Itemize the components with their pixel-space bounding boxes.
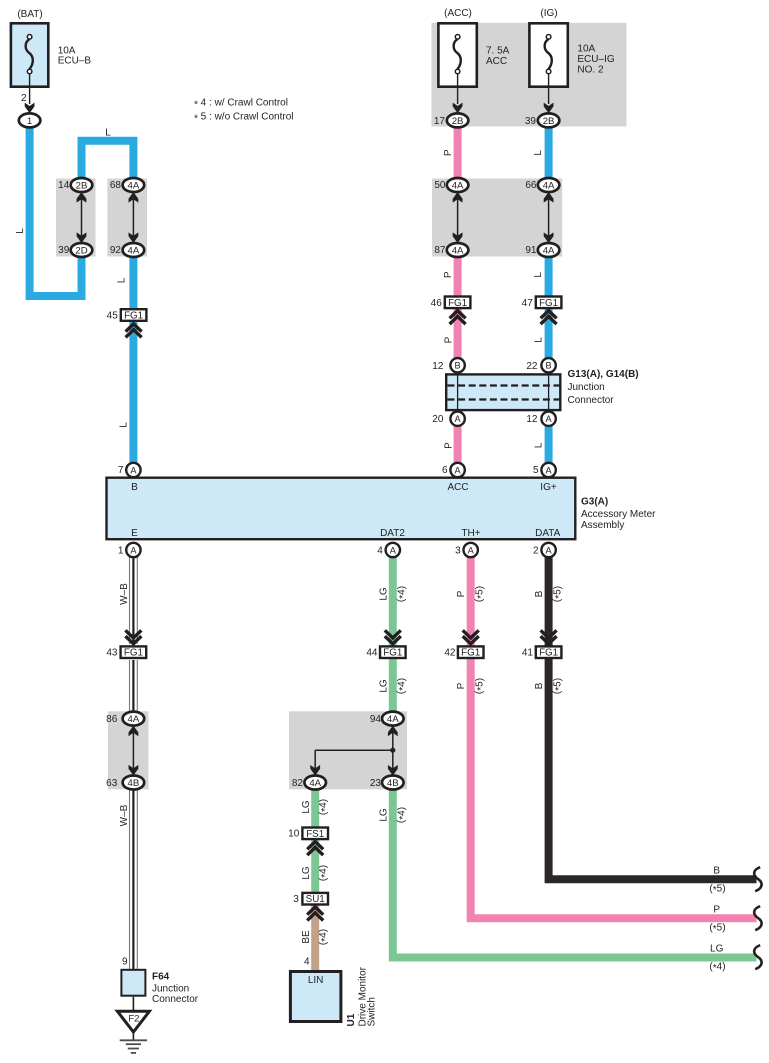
svg-text:* 4 : w/ Crawl Control: * 4 : w/ Crawl Control	[194, 98, 288, 111]
svg-text:Switch: Switch	[366, 997, 377, 1026]
svg-text:2D: 2D	[75, 245, 87, 256]
svg-text:2B: 2B	[543, 116, 555, 127]
svg-text:ECU–B: ECU–B	[58, 56, 92, 67]
svg-text:7: 7	[118, 465, 124, 476]
svg-text:(*4): (*4)	[709, 961, 725, 974]
connector 42 FG1	[463, 630, 479, 644]
svg-text:92: 92	[110, 245, 122, 256]
svg-text:(*4): (*4)	[318, 929, 331, 945]
connector 43 FG1	[125, 630, 141, 644]
svg-text:4A: 4A	[543, 180, 555, 191]
svg-text:LG: LG	[378, 587, 389, 601]
svg-text:14: 14	[58, 180, 70, 191]
svg-text:5: 5	[533, 465, 539, 476]
svg-text:G3(A): G3(A)	[581, 497, 608, 508]
svg-text:4A: 4A	[128, 714, 140, 725]
wire LG from meter pin 4 DAT2 to FG1 44	[389, 556, 397, 646]
edge break mark B wire	[754, 867, 761, 891]
ground symbol	[132, 1032, 134, 1040]
svg-text:2: 2	[533, 546, 539, 557]
svg-text:20: 20	[432, 414, 444, 425]
svg-text:LG: LG	[301, 800, 312, 814]
svg-text:L: L	[533, 337, 544, 343]
svg-text:6: 6	[442, 465, 448, 476]
wire L from 91 4A to FG1 47	[545, 255, 553, 297]
svg-text:B: B	[534, 590, 545, 597]
svg-text:(*4): (*4)	[396, 807, 409, 823]
svg-text:F64: F64	[152, 972, 170, 983]
svg-text:22: 22	[526, 361, 538, 372]
svg-text:(ACC): (ACC)	[444, 8, 472, 19]
svg-text:1: 1	[27, 116, 32, 127]
svg-text:4B: 4B	[387, 778, 399, 789]
svg-text:FG1: FG1	[539, 298, 558, 309]
ground triangle F2	[117, 1011, 149, 1032]
connector pair 66 4A / 91 4A	[548, 193, 550, 242]
svg-text:4: 4	[377, 546, 383, 557]
connector pair 68 4A / 92 4A	[132, 193, 134, 242]
svg-text:23: 23	[370, 778, 382, 789]
svg-text:ACC: ACC	[486, 56, 507, 67]
svg-text:B: B	[131, 482, 138, 493]
svg-text:A: A	[546, 414, 553, 424]
svg-text:(*5): (*5)	[709, 922, 725, 935]
svg-text:P: P	[443, 442, 454, 449]
svg-text:1: 1	[118, 546, 124, 557]
svg-text:17: 17	[434, 116, 446, 127]
svg-text:A: A	[390, 545, 397, 555]
svg-text:(*5): (*5)	[552, 678, 565, 694]
svg-text:(*5): (*5)	[474, 678, 487, 694]
connector 44 FG1	[385, 630, 401, 644]
svg-text:L: L	[118, 422, 129, 428]
gray shade box connector 94/82/23 group	[289, 711, 407, 789]
svg-text:Connector: Connector	[568, 395, 615, 406]
gray shade box connector 2B/2D pair	[56, 179, 96, 257]
svg-text:Assembly: Assembly	[581, 520, 624, 531]
wire from F64 to ground F2	[132, 997, 134, 1010]
svg-text:(*5): (*5)	[552, 586, 565, 602]
svg-text:ECU–IG: ECU–IG	[577, 54, 614, 65]
junction connector G13(A) G14(B)	[446, 374, 560, 410]
svg-text:4: 4	[304, 957, 310, 968]
svg-text:B: B	[546, 361, 552, 371]
svg-text:(*5): (*5)	[709, 883, 725, 896]
svg-text:(BAT): (BAT)	[17, 9, 42, 20]
svg-text:39: 39	[58, 245, 70, 256]
svg-text:42: 42	[444, 648, 456, 659]
svg-text:TH+: TH+	[461, 528, 480, 539]
wire L from 92 4A to FG1 45	[129, 255, 137, 309]
wire LG from FS1 to SU1	[311, 840, 319, 895]
svg-text:P: P	[456, 590, 467, 597]
svg-text:B: B	[713, 866, 720, 877]
svg-text:* 5 : w/o Crawl Control: * 5 : w/o Crawl Control	[194, 112, 294, 125]
wire LG from FG1 44 to 94 4A	[389, 659, 397, 715]
svg-text:L: L	[533, 442, 544, 448]
svg-text:9: 9	[122, 957, 128, 968]
svg-text:L: L	[105, 127, 111, 138]
svg-text:IG+: IG+	[540, 482, 557, 493]
svg-text:LG: LG	[378, 808, 389, 822]
svg-text:NO. 2: NO. 2	[577, 65, 604, 76]
gray shade box around ACC/IG fuses	[431, 23, 626, 127]
svg-text:P: P	[456, 682, 467, 689]
svg-text:A: A	[130, 465, 137, 475]
svg-text:FS1: FS1	[306, 829, 324, 840]
wire BE from SU1 to switch LIN pin 4	[311, 905, 319, 972]
svg-text:39: 39	[525, 116, 537, 127]
svg-text:4A: 4A	[128, 245, 140, 256]
wire L from FG1 47 to junction 22 B	[545, 309, 553, 361]
svg-text:3: 3	[293, 894, 299, 905]
svg-text:(*4): (*4)	[396, 586, 409, 602]
svg-text:(*4): (*4)	[396, 678, 409, 694]
svg-text:W–B: W–B	[119, 804, 130, 826]
svg-text:4A: 4A	[452, 180, 464, 191]
svg-text:L: L	[15, 228, 26, 234]
svg-text:2B: 2B	[76, 180, 88, 191]
gray shade box connector 86/63 pair	[108, 711, 149, 789]
connector 41 FG1	[541, 630, 557, 644]
drive monitor switch U1 box	[290, 972, 341, 1022]
svg-text:63: 63	[106, 778, 118, 789]
svg-text:12: 12	[432, 361, 444, 372]
connector pair 50 4A / 87 4A	[457, 193, 459, 242]
svg-text:FG1: FG1	[461, 648, 480, 659]
fuse pin arrow to 39 2B	[544, 103, 554, 114]
svg-text:B: B	[534, 682, 545, 689]
svg-text:4A: 4A	[452, 245, 464, 256]
svg-text:45: 45	[107, 311, 119, 322]
svg-text:47: 47	[522, 298, 534, 309]
svg-text:46: 46	[431, 298, 443, 309]
svg-text:82: 82	[292, 778, 304, 789]
svg-text:A: A	[455, 465, 462, 475]
svg-text:LG: LG	[378, 679, 389, 693]
svg-text:86: 86	[106, 714, 118, 725]
svg-text:FG1: FG1	[124, 648, 143, 659]
svg-text:(*5): (*5)	[474, 586, 487, 602]
svg-text:50: 50	[434, 180, 446, 191]
wire B from meter pin 2 DATA to FG1 41	[545, 556, 553, 646]
svg-text:4A: 4A	[309, 778, 321, 789]
connector 1	[19, 113, 41, 127]
svg-text:4A: 4A	[387, 714, 399, 725]
svg-text:3: 3	[455, 546, 461, 557]
svg-text:4A: 4A	[128, 180, 140, 191]
wire P from meter pin 3 TH+ to FG1 42	[467, 556, 475, 646]
svg-text:Connector: Connector	[152, 994, 199, 1005]
svg-text:U1: U1	[346, 1013, 357, 1026]
svg-text:A: A	[468, 545, 475, 555]
svg-text:W–B: W–B	[119, 583, 130, 605]
svg-text:44: 44	[366, 648, 378, 659]
wire LG from 82 4A to FS1	[311, 788, 319, 829]
wire L from junction 12 A to meter pin 5 IG+	[545, 425, 553, 466]
svg-text:F2: F2	[128, 1014, 139, 1025]
wire B from FG1 41 down and right to edge	[549, 659, 757, 880]
svg-text:SU1: SU1	[306, 894, 325, 905]
svg-text:LG: LG	[301, 866, 312, 880]
wire P from ACC fuse 2B to 50 4A	[454, 124, 462, 180]
wire L from IG fuse 2B to 66 4A	[545, 124, 553, 180]
svg-text:41: 41	[522, 648, 534, 659]
svg-text:10: 10	[288, 829, 300, 840]
gray shade box connector 68/92 4A pair	[107, 179, 147, 257]
wire W-B from meter pin 1 E to FG1 43	[130, 556, 138, 644]
svg-text:L: L	[533, 150, 544, 156]
svg-text:P: P	[443, 271, 454, 278]
wire P from junction 20 A to meter pin 6 ACC	[454, 425, 462, 466]
fuse pin arrow to 17 2B	[453, 103, 463, 114]
accessory meter assembly G3(A)	[107, 478, 576, 540]
svg-text:A: A	[455, 414, 462, 424]
svg-text:L: L	[533, 272, 544, 278]
wire L from 2B up/right/down to 68 4A	[82, 141, 134, 180]
svg-text:FG1: FG1	[448, 298, 467, 309]
svg-text:2: 2	[21, 93, 27, 104]
svg-text:FG1: FG1	[383, 648, 402, 659]
wire L (BAT) from connector 1 down/right/up to 2D	[30, 124, 82, 296]
connector pair 14 2B / 39 2D	[81, 193, 83, 242]
svg-text:10A: 10A	[577, 43, 595, 54]
connector pair 86 4A / 63 4B	[132, 727, 134, 775]
svg-text:DATA: DATA	[535, 528, 561, 539]
wire W-B from FG1 43 to 86 4A	[130, 660, 138, 714]
svg-text:(*4): (*4)	[318, 799, 331, 815]
svg-text:L: L	[116, 277, 127, 283]
svg-text:P: P	[443, 336, 454, 343]
svg-text:A: A	[130, 545, 137, 555]
svg-text:12: 12	[526, 414, 538, 425]
svg-text:ACC: ACC	[447, 482, 468, 493]
svg-text:Junction: Junction	[152, 984, 189, 995]
edge break mark LG wire	[754, 945, 761, 969]
svg-text:LG: LG	[710, 944, 724, 955]
svg-text:A: A	[546, 465, 553, 475]
svg-text:G13(A), G14(B): G13(A), G14(B)	[568, 369, 639, 380]
svg-text:4B: 4B	[128, 778, 140, 789]
svg-text:B: B	[455, 361, 461, 371]
svg-text:BE: BE	[301, 930, 312, 944]
svg-text:68: 68	[110, 180, 122, 191]
svg-text:FG1: FG1	[124, 311, 143, 322]
wire L from FG1 45 to meter pin 7 B	[129, 322, 137, 466]
wire P from FG1 42 down and right to edge	[471, 659, 757, 919]
svg-text:A: A	[546, 545, 553, 555]
gray shade box connector 50-87/66-91 4A pairs	[432, 179, 562, 257]
wire P from 87 4A to FG1 46	[454, 255, 462, 297]
svg-text:(*4): (*4)	[318, 865, 331, 881]
svg-text:DAT2: DAT2	[380, 528, 405, 539]
edge break mark P wire	[754, 906, 761, 930]
wire P from FG1 46 to junction 12 B	[454, 309, 462, 361]
svg-text:P: P	[713, 905, 720, 916]
svg-text:91: 91	[525, 245, 537, 256]
svg-text:E: E	[131, 528, 138, 539]
svg-text:P: P	[443, 149, 454, 156]
svg-text:2B: 2B	[452, 116, 464, 127]
wire LG from 23 4B down and right to edge	[393, 788, 757, 958]
svg-text:43: 43	[106, 648, 118, 659]
svg-text:66: 66	[525, 180, 537, 191]
svg-text:LIN: LIN	[308, 975, 324, 986]
svg-text:(IG): (IG)	[540, 8, 557, 19]
svg-text:94: 94	[370, 714, 382, 725]
junction dot	[390, 748, 395, 753]
connector group 94 4A to 82 4A / 23 4B	[315, 726, 393, 776]
svg-text:Junction: Junction	[568, 382, 605, 393]
wire W-B from 63 4B to junction connector F64	[130, 788, 138, 970]
svg-text:Accessory Meter: Accessory Meter	[581, 509, 656, 520]
svg-text:4A: 4A	[543, 245, 555, 256]
svg-text:FG1: FG1	[539, 648, 558, 659]
svg-text:87: 87	[434, 245, 446, 256]
